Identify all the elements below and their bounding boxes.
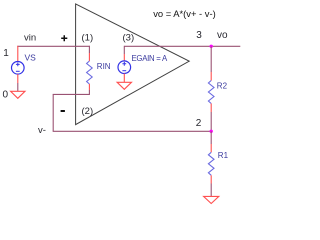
controlled source EGAIN circle bbox=[118, 61, 131, 74]
resistor R2 bottom pin bbox=[210, 104, 212, 113]
svg-text:R1: R1 bbox=[218, 151, 229, 160]
resistor R1 bottom pin bbox=[210, 175, 212, 183]
svg-text:2: 2 bbox=[196, 118, 202, 129]
EGAIN bottom pin bbox=[123, 74, 125, 83]
wire EGAIN output stub up to vo rail bbox=[123, 46, 125, 54]
resistor RIN zigzag bbox=[87, 61, 93, 84]
svg-text:(1): (1) bbox=[82, 33, 94, 44]
op-amp U1 triangle body bbox=[76, 4, 190, 125]
wire RIN top stub bbox=[88, 46, 90, 53]
resistor RIN top pin bbox=[88, 53, 90, 61]
wire vo rail from EGAIN to right edge bbox=[124, 45, 240, 47]
EGAIN minus mark bbox=[122, 70, 126, 72]
svg-text:vin: vin bbox=[24, 32, 36, 43]
wire R2 to node 2 bbox=[210, 112, 212, 131]
svg-text:RIN: RIN bbox=[97, 62, 111, 71]
svg-text:3: 3 bbox=[196, 30, 202, 41]
resistor R1 top pin bbox=[210, 144, 212, 152]
svg-text:1: 1 bbox=[3, 48, 9, 59]
wire node3 down to R2 bbox=[210, 46, 212, 72]
wire node2 down to R1 bbox=[210, 131, 212, 144]
svg-text:(2): (2) bbox=[82, 106, 94, 117]
resistor R2 top pin bbox=[210, 72, 212, 81]
op-amp minus input mark bbox=[61, 110, 65, 112]
op-amp plus input mark bbox=[61, 35, 67, 41]
wire R1 to ground bbox=[210, 184, 212, 197]
svg-text:R2: R2 bbox=[217, 82, 228, 91]
VS minus mark bbox=[16, 70, 20, 72]
EGAIN plus mark bbox=[122, 62, 126, 66]
ground below EGAIN bbox=[117, 82, 131, 89]
wire VS bottom stub bbox=[17, 74, 19, 83]
svg-text:EGAIN = A: EGAIN = A bbox=[132, 54, 168, 63]
VS plus mark bbox=[16, 63, 20, 67]
svg-text:VS: VS bbox=[25, 52, 37, 62]
svg-text:v-: v- bbox=[38, 125, 46, 136]
ground 0 below VS bbox=[11, 91, 25, 98]
controlled source EGAIN top pin bbox=[123, 54, 125, 61]
wire v- bottom rail to node 2 bbox=[53, 130, 212, 132]
wire VS top stub bbox=[17, 46, 19, 62]
voltage source VS circle bbox=[11, 62, 24, 75]
svg-text:vo: vo bbox=[217, 30, 228, 41]
wire horizontal to left of RIN bbox=[53, 93, 90, 95]
junction node 2 bbox=[210, 130, 213, 133]
wire RIN bottom to corner bbox=[88, 90, 90, 94]
resistor RIN bottom pin bbox=[88, 84, 90, 90]
svg-text:0: 0 bbox=[3, 90, 9, 101]
junction node 3 bbox=[210, 45, 213, 48]
resistor R1 zigzag bbox=[208, 152, 214, 175]
svg-text:(3): (3) bbox=[123, 33, 135, 44]
wire vin: node 1 horizontal from VS to + input bbox=[17, 45, 90, 47]
svg-text:vo = A*(v+ - v-): vo = A*(v+ - v-) bbox=[153, 8, 216, 19]
wire vertical down to v- rail bbox=[52, 94, 54, 131]
ground below R1 bbox=[204, 196, 219, 203]
resistor R2 zigzag bbox=[208, 81, 214, 104]
wire VS to ground bbox=[17, 83, 19, 92]
